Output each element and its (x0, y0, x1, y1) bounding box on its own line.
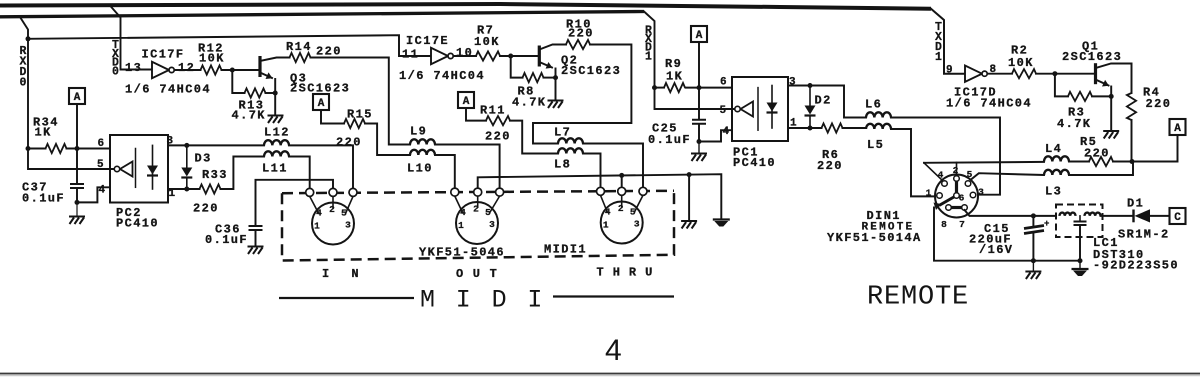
svg-text:T H R U: T H R U (597, 266, 654, 280)
svg-text:5: 5 (341, 208, 347, 219)
inductor L6 (866, 112, 891, 117)
svg-text:8: 8 (941, 219, 947, 230)
DIN1 internal bridge pin8-pin7 (949, 206, 965, 209)
node LC1 bottom junction (1078, 258, 1083, 263)
svg-text:R11: R11 (480, 104, 506, 118)
svg-text:R14: R14 (286, 40, 312, 54)
resistor R3 (1068, 92, 1092, 101)
node C25/PC1 pin4 junction (697, 139, 702, 144)
connector DIN1 REMOTE (DIN8) body (935, 175, 978, 218)
svg-text:7: 7 (959, 219, 965, 230)
wire R8 to Q2 emitter node (544, 77, 556, 79)
wire LC1 to D1 (1101, 215, 1134, 217)
MIDI section title (279, 297, 674, 299)
capacitor C36 (249, 226, 263, 230)
svg-text:REMOTE: REMOTE (867, 283, 969, 313)
transistor Q1 2SC1623 base bar (1094, 63, 1097, 84)
DIN1 pin 3 circle (970, 192, 976, 198)
wire DIN1 pin8 to bottom return line (934, 208, 1080, 261)
wire PC2 pin1 to R33 (168, 188, 200, 190)
svg-text:L6: L6 (865, 98, 882, 112)
wire R5 node to A box (1113, 135, 1178, 162)
svg-text:220: 220 (316, 45, 342, 59)
svg-text:2: 2 (473, 204, 479, 215)
svg-text:4.7K: 4.7K (1057, 117, 1091, 131)
wire C37 to ground node (76, 189, 78, 203)
PC2 internal vertical rail (135, 149, 137, 188)
pin circle IN middle (329, 188, 337, 196)
wire drop to DIN1 pin 2 (956, 163, 958, 177)
wire Q3 collector to R14 (260, 58, 290, 62)
svg-text:1/6 74HC04: 1/6 74HC04 (399, 69, 485, 83)
svg-text:9: 9 (946, 65, 953, 77)
wire L4 line to DIN pins (924, 161, 1044, 164)
svg-text:5: 5 (97, 159, 104, 171)
wire MIDI IN center pin to C36 (256, 180, 334, 226)
ground at Q3 emitter (268, 116, 284, 124)
node R4/R5/L3 junction (1130, 159, 1135, 164)
wire IC17E output to R7 (454, 55, 477, 57)
pin circle THRU right (639, 187, 647, 195)
inductor LC1 coil right (1085, 213, 1101, 216)
svg-text:1: 1 (603, 220, 609, 231)
pin circle IN left (306, 188, 314, 196)
wire to chassis ground (1079, 261, 1081, 269)
svg-text:12: 12 (178, 61, 195, 75)
svg-text:D3: D3 (195, 152, 212, 166)
ground below C37 (69, 217, 85, 225)
svg-text:3: 3 (789, 77, 796, 89)
node A supply box right (1170, 119, 1186, 135)
inductor L12 (264, 140, 289, 145)
svg-text:6: 6 (720, 77, 727, 89)
resistor R33 (200, 184, 221, 193)
wire Q1 collector to R4 (1096, 64, 1132, 69)
wire TXD1 drop to IC17D pin 9 (931, 9, 965, 74)
svg-text:220: 220 (193, 202, 219, 216)
wire IC17F output to R12 (175, 69, 201, 71)
PC1 LED triangle (767, 103, 778, 112)
wire L5 to DIN1 pin 1 (891, 129, 937, 196)
svg-text:I N: I N (322, 267, 366, 281)
svg-text:1/6 74HC04: 1/6 74HC04 (946, 97, 1032, 111)
wire ground node to PC1 pin 4 (699, 130, 732, 141)
node D2/R6 junction (808, 126, 813, 131)
pin circle THRU left (597, 187, 605, 195)
svg-text:2SC1623: 2SC1623 (561, 64, 621, 78)
resistor R10 (566, 40, 590, 49)
wire node to C15 (1032, 216, 1034, 225)
node pin3/D2 junction (808, 83, 813, 88)
inductor L7 (558, 138, 583, 143)
svg-text:A: A (463, 96, 470, 108)
svg-text:0.1uF: 0.1uF (22, 192, 65, 206)
svg-text:YKF51-5046: YKF51-5046 (419, 246, 505, 260)
wire L8 to MIDI THRU pin circle (583, 154, 601, 188)
svg-text:10K: 10K (199, 52, 225, 66)
resistor R11 (486, 116, 510, 125)
wire junction down to R8 (511, 56, 523, 78)
svg-text:10K: 10K (474, 35, 500, 49)
svg-text:IC17F: IC17F (142, 48, 185, 62)
inductor LC1 coil left (1060, 213, 1076, 216)
wire RXD0 line to R34 (28, 148, 46, 150)
svg-text:PC410: PC410 (116, 217, 159, 231)
svg-text:L3: L3 (1045, 185, 1062, 199)
wire node down to C25 (698, 88, 700, 119)
svg-text:0: 0 (20, 77, 27, 90)
resistor R5 (1089, 157, 1113, 166)
capacitor C25 (692, 120, 706, 124)
wire TXD0 drop to IC17F pin 13 (110, 5, 153, 70)
svg-text:3: 3 (345, 220, 351, 231)
inductor L4 (1044, 156, 1069, 161)
node RXD1/R9 junction (652, 85, 657, 90)
wire junction to C37 (76, 149, 78, 184)
PC1 internal LED diode (771, 86, 773, 129)
resistor R2 (1012, 69, 1036, 78)
diode D3 (186, 145, 188, 167)
resistor R4 (1127, 93, 1136, 120)
diode D2 triangle (805, 106, 816, 115)
wire R13 to Q3 emitter node (266, 92, 276, 94)
svg-text:220: 220 (336, 136, 362, 150)
node D3/R33 junction (184, 187, 189, 192)
PC2 internal LED diode (152, 145, 154, 189)
node pin3/D3 junction (184, 143, 189, 148)
wire C25 to ground node (698, 124, 700, 141)
svg-text:4: 4 (460, 207, 466, 218)
svg-text:IC17E: IC17E (406, 34, 449, 48)
capacitor C15 (polarized) (1024, 226, 1044, 234)
svg-text:0: 0 (112, 65, 119, 78)
wire L6 to DIN1 pin 3 (891, 118, 1000, 195)
DIN1 pin 7 circle (962, 205, 968, 211)
node R34/C37 junction (75, 146, 80, 151)
wire R34 to PC2 pin 6 (67, 148, 111, 150)
svg-text:11: 11 (402, 48, 419, 62)
svg-text:1/6 74HC04: 1/6 74HC04 (125, 83, 211, 97)
wire C36 to ground (255, 231, 257, 246)
node C37/PC2 pin4 junction (75, 200, 80, 205)
svg-text:A: A (696, 30, 703, 42)
inductor L8 (558, 148, 583, 153)
wire L12 to MIDI IN pin circle (289, 145, 353, 188)
wire A box to R9 node (698, 42, 700, 88)
wire PC1 pin3 to L6 (788, 86, 866, 118)
svg-text:5: 5 (967, 169, 973, 180)
svg-text:5: 5 (485, 207, 491, 218)
svg-text:220: 220 (1146, 97, 1172, 111)
wire RX bus (RXD0/RXD1 net) (0, 12, 644, 17)
wire ground node to PC2 pin 4 (77, 187, 110, 202)
transistor Q3 2SC1623 base bar (258, 56, 261, 77)
svg-text:10K: 10K (1008, 56, 1034, 70)
svg-text:13: 13 (125, 61, 142, 75)
svg-text:4: 4 (99, 185, 106, 197)
ground below C25 (691, 154, 707, 162)
transistor Q2 2SC1623 base bar (538, 46, 541, 67)
svg-text:4: 4 (605, 207, 611, 218)
svg-text:L4: L4 (1045, 142, 1062, 156)
svg-text:5: 5 (630, 207, 636, 218)
wire R9 to PC1 pin 6 (686, 87, 733, 89)
svg-text:0.1uF: 0.1uF (205, 233, 248, 247)
svg-text:1: 1 (458, 220, 464, 231)
wire Q2 collector to R10 (539, 45, 566, 50)
wire A box to R34 node (76, 104, 78, 149)
bottom border line (0, 373, 1200, 375)
DIN1 pin 4 circle (942, 181, 948, 187)
ground at Q2 emitter (548, 101, 564, 109)
resistor R6 (822, 123, 843, 132)
svg-text:3: 3 (978, 187, 984, 198)
svg-text:220: 220 (1084, 147, 1110, 161)
filter LC1 dashed box (1056, 205, 1103, 238)
wire TX bus (TXD0/TXD1 net) (0, 4, 931, 9)
svg-text:/16V: /16V (979, 243, 1013, 257)
wire R6 to L5 (843, 127, 867, 129)
wire R12 to Q3 base (222, 69, 261, 71)
wire A box to R11 (466, 108, 486, 121)
svg-text:PC410: PC410 (733, 156, 776, 170)
inductor L9 (410, 139, 435, 144)
svg-text:1K: 1K (666, 70, 683, 84)
resistor R13 (245, 88, 266, 97)
svg-text:L7: L7 (554, 126, 571, 140)
svg-text:6: 6 (98, 138, 105, 150)
svg-text:R33: R33 (202, 168, 228, 182)
svg-text:A: A (74, 92, 81, 104)
node R2/R3 junction (1052, 71, 1057, 76)
svg-text:A: A (1174, 123, 1181, 135)
wire RXD0 to IC17E pin 11 (28, 35, 431, 56)
svg-text:SR1M-2: SR1M-2 (1118, 228, 1170, 242)
svg-text:-92D223S50: -92D223S50 (1093, 259, 1179, 273)
wire to ground symbol (76, 202, 78, 215)
resistor R15 (344, 119, 365, 128)
wire PC1 pin1 to R6 (788, 127, 822, 129)
wire L10 to MIDI OUT pin circle (435, 155, 455, 188)
wire RXD0 drop to PC2 pin 5 (20, 17, 114, 169)
node A supply box near R34 (69, 88, 85, 104)
DIN1 pin 2 circle (954, 176, 960, 182)
wire C15 to bottom return line (1032, 233, 1034, 261)
wire diagonal to DIN1 pin 4 (924, 163, 944, 182)
wire IC17D output to R2 (988, 73, 1013, 75)
wire L4 to R5 (1069, 161, 1089, 163)
wire Q3 emitter (260, 73, 272, 79)
svg-text:C: C (1174, 212, 1181, 224)
ground at Q1 emitter (1103, 131, 1119, 139)
wire RXD1 to R9 (655, 87, 665, 89)
node RXD0/R34 junction (26, 146, 31, 151)
pin circle OUT left (451, 188, 459, 196)
wire R33 up to L11 (221, 157, 265, 190)
resistor R8 (523, 73, 544, 82)
pin circle OUT right (496, 188, 504, 196)
wire Q3 emitter to ground (274, 79, 276, 115)
wire junction down to R13 (232, 70, 244, 93)
node R12/R13 junction (230, 68, 235, 73)
wire R4 to R5 node (1131, 120, 1133, 162)
svg-text:3: 3 (489, 219, 495, 230)
optocoupler PC2 PC410 body (110, 135, 168, 203)
node C15 bottom junction (1031, 258, 1036, 263)
wire L7 to MIDI THRU pin circle (583, 144, 643, 188)
svg-text:M I D I: M I D I (420, 286, 545, 315)
PC1 internal output buffer triangle (741, 102, 754, 117)
svg-text:3: 3 (634, 219, 640, 230)
svg-text:1: 1 (935, 51, 942, 64)
svg-text:4: 4 (723, 126, 730, 138)
svg-text:1K: 1K (35, 126, 52, 140)
PC2 internal output buffer triangle (120, 162, 133, 177)
svg-text:A: A (318, 98, 325, 110)
wire R2 to Q1 base (1036, 73, 1096, 75)
node C15 top junction (1031, 213, 1036, 218)
svg-text:4.7K: 4.7K (512, 96, 546, 110)
wire R15 to L10 (365, 124, 410, 156)
DIN1 pin 6 circle (954, 193, 960, 199)
PC1 internal vertical rail (757, 88, 759, 131)
node A supply box near R15 (313, 94, 329, 110)
svg-text:D2: D2 (815, 94, 832, 108)
ground below C36 (248, 247, 264, 255)
resistor R14 (290, 53, 311, 62)
svg-text:220: 220 (568, 27, 594, 41)
inductor L3 (1044, 170, 1069, 175)
node THRU shield junction (619, 173, 624, 178)
ground on shield line (681, 221, 697, 229)
resistor R9 (664, 83, 685, 92)
svg-text:2: 2 (329, 204, 335, 215)
svg-text:1: 1 (926, 188, 932, 199)
wire A box to R15 (321, 110, 344, 124)
wire Q1 emitter to ground (1110, 87, 1112, 131)
DIN1 internal key diagonal (939, 196, 957, 206)
svg-text:D1: D1 (1127, 197, 1144, 211)
svg-text:2: 2 (618, 203, 624, 214)
svg-text:220: 220 (817, 159, 843, 173)
wire R14 to L9 (311, 58, 411, 145)
capacitor inside LC1 (1074, 222, 1087, 226)
svg-text:MIDI1: MIDI1 (544, 243, 587, 257)
wire R7 to Q2 base (500, 55, 539, 57)
DIN1 pin 5 circle (965, 181, 971, 187)
pin circle IN right (349, 188, 357, 196)
svg-text:2SC1623: 2SC1623 (1062, 50, 1122, 64)
wire junction down to R3 (1055, 74, 1068, 97)
wire LC1 center tap (1079, 216, 1081, 221)
wire Q2 emitter (539, 62, 552, 68)
node shield ground junction (687, 172, 692, 177)
svg-text:5: 5 (720, 105, 727, 117)
svg-text:L10: L10 (407, 162, 433, 176)
connector MIDI OUT (DIN5) (456, 202, 498, 244)
pin circle OUT middle (474, 188, 482, 196)
svg-text:YKF51-5014A: YKF51-5014A (827, 231, 922, 245)
svg-text:10: 10 (456, 46, 473, 60)
svg-text:+: + (1044, 219, 1049, 229)
svg-text:L11: L11 (262, 162, 288, 176)
node R9/C25 junction (697, 85, 702, 90)
connector MIDI IN (DIN5) (312, 203, 354, 245)
node R13/emitter junction (273, 91, 278, 96)
wire to ground symbol (1032, 261, 1034, 271)
MIDI connector dashed enclosure box (282, 191, 674, 261)
DIN1 pin 1 circle (937, 193, 943, 199)
resistor R34 (46, 144, 67, 153)
svg-text:L8: L8 (554, 158, 571, 172)
svg-text:L9: L9 (410, 125, 427, 139)
wire L11 to MIDI IN pin circle (289, 157, 310, 189)
svg-text:4: 4 (605, 334, 622, 367)
wire R3 to Q1 emitter node (1092, 95, 1111, 97)
diode D3 triangle (181, 168, 192, 177)
DIN1 pin 8 circle (946, 205, 952, 211)
inductor L10 (410, 150, 435, 155)
inverter IC17D (1/6 74HC04) (965, 66, 982, 82)
svg-text:4: 4 (316, 208, 322, 219)
wire RXD1 drop to PC1 pin 5 (644, 12, 734, 110)
node A supply box near R9 (691, 26, 707, 42)
inverter IC17F (1/6 74HC04) (152, 62, 169, 78)
ground below C15 (1025, 272, 1041, 280)
svg-text:L12: L12 (264, 126, 290, 140)
node A supply box near R11 (458, 92, 474, 108)
node R7/R8 junction (508, 54, 513, 59)
wire R10 to L7 (533, 45, 631, 144)
DIN1 internal bridge pin2-pin6 (955, 179, 958, 196)
svg-text:220: 220 (485, 130, 511, 144)
svg-text:4.7K: 4.7K (232, 109, 266, 123)
svg-text:4: 4 (938, 170, 944, 181)
pin circle THRU middle (618, 187, 626, 195)
optocoupler PC1 PC410 body (732, 77, 788, 141)
wire L3 to DIN1 pin 5 (969, 173, 1045, 181)
wire shield to THRU center pin (621, 175, 623, 187)
wire L3 to R4/R5 junction (1069, 162, 1133, 176)
wire Q1 emitter (1096, 80, 1109, 86)
wire Q2 emitter to ground (555, 69, 557, 101)
svg-text:O U T: O U T (456, 267, 498, 281)
resistor R12 (201, 65, 222, 74)
inverter IC17E (1/6 74HC04) (431, 48, 448, 64)
node RXD0 junction (26, 36, 31, 41)
wire R11 to L8 (510, 121, 558, 154)
inductor L5 (866, 124, 891, 129)
svg-text:0.1uF: 0.1uF (648, 133, 691, 147)
wire LC1 cap to bottom line (1079, 226, 1081, 261)
svg-text:2: 2 (953, 165, 959, 176)
connector MIDI THRU (DIN5) (601, 202, 643, 244)
svg-text:1: 1 (645, 50, 652, 63)
node C supply box (1170, 208, 1186, 224)
capacitor C37 (70, 184, 84, 188)
node R3/emitter junction (1109, 94, 1114, 99)
wire D1 to C box (1150, 215, 1170, 217)
wire shield to signal ground (688, 175, 690, 221)
wire PC2 pin3 to L12 (168, 144, 264, 146)
inductor L11 (264, 151, 289, 156)
diode D1 (1132, 210, 1134, 223)
wire DIN1 pin7 to LC1 (965, 210, 1057, 216)
PC2 LED triangle (147, 166, 158, 175)
diode D2 (809, 86, 811, 106)
svg-text:6: 6 (959, 193, 965, 204)
chassis ground on shield line (713, 218, 730, 220)
